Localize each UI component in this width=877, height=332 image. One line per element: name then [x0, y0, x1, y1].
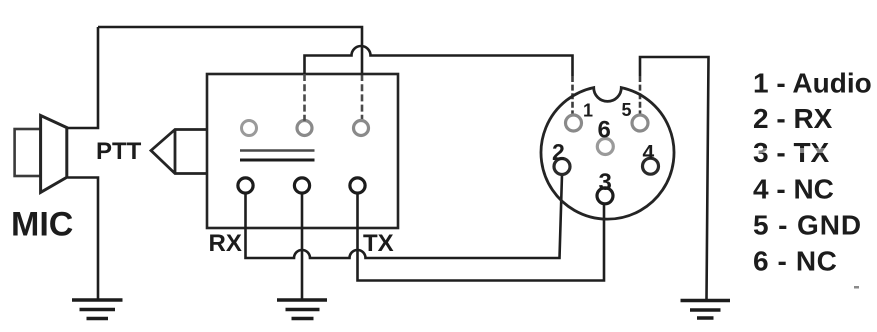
block bottom contact 1 (RX)	[238, 178, 253, 193]
DIN pin 3	[597, 188, 613, 204]
svg-text:4: 4	[643, 142, 655, 165]
svg-text:2 - RX: 2 - RX	[753, 103, 833, 134]
wire top rail (MIC to block top contact 3)	[98, 27, 362, 74]
wire drop to DIN pin 1 (dashed in scan)	[571, 76, 574, 115]
DIN pin 2	[554, 159, 570, 175]
block bottom contact 3 (TX)	[350, 178, 365, 193]
DIN pin 4	[643, 158, 659, 174]
DIN pin 5	[632, 115, 648, 131]
wire RX bus (block bottom contact 1 to DIN pin 2) with hops	[246, 175, 563, 258]
svg-text:2: 2	[552, 139, 565, 165]
wire block bottom contact 2 to ground	[301, 193, 304, 299]
microphone MIC body	[15, 116, 67, 193]
wire stub to block top contact 2 (faded in scan)	[303, 74, 306, 121]
wire DIN pin 5 to right ground rail	[640, 57, 709, 299]
block top contact 3	[354, 121, 369, 136]
wire stub to block top contact 3 (faded in scan)	[361, 74, 364, 121]
ground (center)	[277, 300, 327, 319]
svg-text:PTT: PTT	[96, 138, 142, 165]
svg-text:6 - NC: 6 - NC	[753, 246, 838, 277]
svg-text:TX: TX	[363, 230, 394, 257]
svg-text:1 - Audio: 1 - Audio	[753, 68, 872, 99]
PTT switch symbol (arrow into block)	[151, 130, 208, 174]
block top contact 1	[242, 121, 257, 136]
svg-text:1: 1	[583, 100, 593, 120]
wire rail 2 (block top contact 2 to DIN pin 1) with hop over vertical	[305, 46, 573, 76]
wire drop to DIN pin 5 (dashed in scan)	[639, 76, 642, 115]
ground (MIC)	[72, 300, 123, 319]
DIN connector outline with keyway notch	[541, 88, 674, 220]
svg-text:MIC: MIC	[11, 206, 73, 244]
DIN pin 1	[566, 115, 582, 131]
block separator line lower	[240, 159, 315, 162]
junction block outline	[207, 74, 398, 228]
wire MIC top terminal to top rail	[68, 27, 99, 128]
DIN pin 6	[597, 139, 613, 155]
scan fade artifact over legend row 3	[752, 148, 832, 153]
block bottom contact 2 (GND)	[294, 178, 309, 193]
block separator line upper	[240, 149, 315, 151]
ground (right, pin 5 GND)	[681, 301, 731, 319]
svg-text:4 - NC: 4 - NC	[753, 174, 834, 205]
svg-text:5: 5	[622, 100, 632, 120]
scan speck artifact	[854, 286, 859, 289]
svg-text:3: 3	[599, 169, 612, 196]
block top contact 2	[297, 121, 312, 136]
wire MIC bottom terminal to ground	[68, 178, 99, 300]
svg-text:5 - GND: 5 - GND	[753, 210, 862, 241]
svg-text:6: 6	[598, 117, 611, 144]
wire TX bus (block bottom contact 3 to DIN pin 3)	[358, 193, 605, 280]
svg-text:RX: RX	[209, 230, 242, 257]
